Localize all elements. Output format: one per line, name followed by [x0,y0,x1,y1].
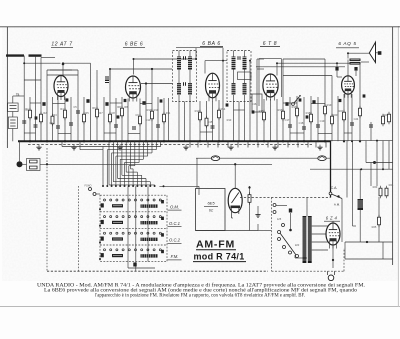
svg-text:F.M.: F.M. [171,254,179,259]
wire stage1 link [47,69,78,71]
junction on switch box edge [99,208,101,210]
capacitor C25 [369,125,373,127]
coil L16 in wafer F.M. [112,254,123,257]
capacitor padder in wafer O.C.1 [101,220,104,224]
junction on bus [218,140,220,142]
wire speaker magnet lead [376,52,378,54]
wire AVC line stage2 [110,68,172,70]
svg-text:220: 220 [295,243,300,247]
junction [151,68,153,70]
wire [145,84,147,98]
wire stage4 vertical [296,96,298,141]
svg-text:A.M.: A.M. [334,203,340,207]
resistor R5 [83,112,86,125]
switch terminal [154,185,156,187]
wire [109,69,111,80]
junction on bus [324,140,326,142]
svg-text:mod R 74/1: mod R 74/1 [193,252,244,262]
junction on bus [127,140,129,142]
capacitor C33 tuning [105,81,109,83]
wire component link [104,132,116,134]
wire transformer top lead [306,198,308,217]
wire stage4 vertical [324,96,326,141]
wire stage2 vertical [103,97,105,141]
FM dipole antenna left arm [6,54,24,56]
svg-text:R6: R6 [92,106,96,110]
wire stage1 vertical [90,63,92,141]
switch contacts O.M. [104,199,162,201]
junction node [249,60,251,62]
wire [184,102,186,142]
wire [198,186,200,195]
AM antenna coil L1 [8,103,19,112]
power transformer T5 [303,216,312,263]
wire component link [53,103,66,105]
tube V6 label fraction bar [204,205,218,207]
wire [40,58,42,97]
svg-text:R23: R23 [373,185,378,189]
wire [355,71,357,76]
tube V3 label underline [200,46,223,48]
wire right column vertical [376,141,378,186]
capacitor C8 [114,125,118,127]
wire in T1 [178,51,180,57]
junction node [133,58,135,60]
capacitor C10 [156,125,160,127]
tube V1 12AT7 [54,76,68,101]
paper noise overlay [2,26,398,281]
wire choke bottom [359,210,361,242]
svg-text:R4: R4 [60,107,64,111]
tube V2 6BE6 [126,76,141,102]
wire stage2 vertical [157,97,159,141]
wire right column vertical [382,141,384,170]
wire in T2 [233,70,235,84]
svg-text:C8: C8 [111,111,115,115]
wire [378,225,380,242]
coil L14 in wafer O.C.2 [112,237,123,240]
dial lamp LP1 filament [213,156,219,158]
IF T1 tertiary coil [177,83,181,95]
wire indicator feed [234,164,236,188]
wire [256,59,258,75]
capacitor padder in wafer O.M. [101,203,104,207]
svg-text:6 Z 4: 6 Z 4 [326,216,338,221]
wire component link [30,102,41,104]
model label AM-FM underline [196,249,236,251]
wire to indicator row [196,158,198,188]
wire band switch cascade horizontal [125,162,140,164]
wire long AF coupling [256,66,345,68]
wire [257,224,259,231]
junction node [360,168,362,170]
wire band switch cascade horizontal [118,178,146,180]
tube V3 6BA6 [206,73,220,101]
wire ground tick [237,141,239,147]
wire transformer bottom lead [295,257,307,259]
wire ground tick [217,141,219,147]
capacitor C4 [69,123,73,125]
resistor R30 [388,112,391,125]
svg-text:R10: R10 [154,108,159,112]
wire ground tick [287,141,289,147]
svg-text:R15: R15 [259,109,264,113]
svg-text:R20: R20 [333,113,338,117]
wire stage2 vertical [151,69,153,141]
resistor R7 [109,112,112,125]
junction node [336,62,338,64]
tube V6 tuning indicator 6E5 [228,188,242,218]
wire band switch cascade drop to terminal [119,159,121,185]
svg-text:R14: R14 [221,107,226,111]
schematic frame left border [6,27,8,148]
ground [71,145,76,150]
wire component link [110,102,122,104]
wire band switch cascade horizontal [112,152,152,154]
wire [276,63,278,75]
resistor R3 [51,114,54,127]
junction on bus [163,140,165,142]
coil L2 winding bar [10,122,15,124]
tube V7 rectifier 6Z4 [326,223,340,249]
capacitor C9 [132,127,136,129]
capacitor C21 blocking [312,100,315,104]
wire stage4 vertical [289,97,291,141]
wire phono to switch box [96,193,100,195]
capacitor C24 [350,123,354,125]
capacitor C32 tuning [105,77,109,79]
wire above T1 [176,47,223,49]
capacitor C23 coupling [354,67,357,71]
junction on bus [303,140,305,142]
wire band switch cascade riser [147,141,149,156]
wire to PS box [258,230,272,232]
resistor R17 [296,106,299,119]
wire [257,68,264,70]
resistor R6 [96,107,99,120]
wire AF line to PS box [40,163,272,165]
wire in T1 [189,70,191,84]
junction node [382,168,384,170]
tube V4 label underline [260,46,280,48]
resistor R11 [163,112,166,125]
band switch wafer separator [100,227,167,229]
wire [353,225,357,227]
wire band switch cascade riser [130,141,132,169]
wire stage1 vertical [29,97,31,141]
wire rectifier cathode down [332,245,334,268]
wire stage4 vertical [303,97,305,141]
wire stage5 vertical [347,94,349,141]
tube V5 label underline [336,47,359,49]
wire in T1 [178,70,180,84]
wire band switch cascade drop to terminal [115,156,117,185]
ground [183,145,188,150]
wire V4 shield right [281,59,283,97]
capacitor C22 coupling [335,67,338,71]
wire ground tick [227,141,229,147]
switch terminal [106,185,108,187]
wire to speaker [348,52,369,54]
wire component link [200,131,213,133]
wire V3 grid link [205,60,227,62]
wire heater line right [310,168,393,170]
wire band switch cascade riser [121,141,123,175]
junction node [206,140,208,142]
power supply box top dashed edge [240,197,331,199]
wire stage4 vertical [270,99,272,141]
wire ground tick [207,141,209,147]
capacitor C17 [288,125,292,127]
svg-text:6 AQ 5: 6 AQ 5 [338,41,356,47]
svg-text:R25: R25 [372,225,377,229]
junction on bus [46,140,48,142]
wire stage2 vertical [145,97,147,141]
phono input terminal 1 [89,188,92,191]
wire component link [290,132,304,134]
terminal dot extra [163,185,165,187]
wire V2 anode to IF1 [141,83,173,85]
wire band switch cascade riser [142,141,144,159]
band switch wafer separator [100,211,167,213]
wire stage1 vertical [23,109,25,141]
resistor R20 [331,114,334,127]
shield dashed boundary left [46,148,48,271]
wire band switch cascade horizontal [126,171,137,173]
junction [366,241,368,243]
wafer label O.C.1 underline [168,226,182,228]
wire antenna to V1 grid [24,62,60,64]
AM antenna coil L2 [8,117,17,129]
svg-text:R8: R8 [124,105,128,109]
PS box edge contact 2 [273,211,276,214]
wire band switch cascade drop to terminal [154,184,156,186]
resistor R19 [324,104,327,117]
svg-text:R21: R21 [339,109,344,113]
wire band switch cascade horizontal [113,181,150,183]
junction on bus [359,140,361,142]
junction node [238,140,240,142]
wire [232,217,234,219]
coil L2 winding bar [10,119,15,121]
wafer label O.C.2 underline [168,242,182,244]
wire [378,197,380,217]
ground [317,145,322,150]
wire transformer secondary lead [312,233,328,235]
wire speaker return [361,61,369,63]
wire stage4 vertical [331,97,333,141]
capacitor blocking small [117,115,120,118]
wire band switch cascade riser [125,141,127,172]
resistor R9 [139,114,142,127]
svg-text:C1: C1 [25,108,29,112]
wire band switch cascade drop to terminal [128,166,130,186]
svg-text:l'apparecchio è in posizione F: l'apparecchio è in posizione FM. Rivelat… [95,294,305,299]
wire component link [58,133,71,135]
capacitor C2 [34,125,38,127]
wire [347,53,349,58]
capacitor in wafer O.C.1 right [161,217,164,220]
wire stage1 vertical [83,97,85,141]
volume potentiometer knob [17,161,23,167]
switch terminal [128,185,130,187]
resistor R15 [263,110,266,123]
capacitor blocking small [363,94,366,97]
wire antenna right downlead [35,56,37,96]
wire transformer secondary lead [312,225,328,227]
junction on bus [199,140,201,142]
wire transformer secondary lead [312,241,328,243]
resistor R4 [64,108,67,121]
wire stage1 vertical [70,97,72,141]
wire band switch cascade drop to terminal [136,172,138,185]
mains plug [328,271,335,280]
wire mains line [345,258,393,260]
wire band switch cascade drop to terminal [145,179,147,186]
wire in T2 [233,51,235,57]
capacitor blocking small [160,99,163,102]
wire in T2 [244,70,246,84]
switch shaft wire right [135,186,137,271]
dial lamp LP2 filament [319,156,325,158]
resistor R24 [385,186,388,199]
power supply box left edge [271,198,273,272]
resistor R21 [343,110,346,123]
capacitor blocking small [299,98,302,101]
svg-text:12 AT 7: 12 AT 7 [51,42,72,48]
switch terminal [149,185,151,187]
capacitor C16 trimmer [238,56,240,60]
capacitor C19 [316,125,320,127]
wire right column vertical [388,141,390,170]
wire rectifier anode up [332,222,334,224]
wire [344,242,346,259]
svg-text:R18: R18 [306,111,311,115]
wire band switch cascade riser [160,141,162,146]
capacitor padder in wafer F.M. [101,253,104,257]
svg-text:C18: C18 [299,121,304,125]
wire band switch cascade drop to terminal [106,150,108,186]
wire [382,242,384,259]
svg-text:6C: 6C [209,209,214,213]
wire band switch cascade drop to terminal [124,163,126,186]
wire band switch cascade riser [155,141,157,149]
page scan right edge [397,26,399,307]
junction node [23,62,25,64]
capacitor blocking small [306,115,309,118]
coil L13 in wafer O.C.1 [141,221,158,224]
resistor R29 [382,114,385,127]
svg-text:R12: R12 [195,109,200,113]
ground near indicator [255,212,260,217]
wire band switch cascade riser [151,141,153,153]
wire ground tick [307,141,309,147]
wire right column drop A [346,141,348,198]
svg-text:R5: R5 [85,111,89,115]
IF T1 secondary coil [188,57,192,70]
tube V4 6T8 [263,74,278,101]
resistor R22 [359,106,362,119]
capacitor blocking small [35,116,38,119]
wire [12,129,14,142]
wire stage1 upper link 2 [24,79,41,81]
shield dashed boundary mid [78,186,80,271]
wire T1 to bus [189,95,191,141]
svg-text:R17: R17 [292,105,297,109]
wire band switch cascade drop to terminal [111,153,113,185]
wire band switch cascade horizontal [103,146,161,148]
svg-text:C5: C5 [73,105,77,109]
capacitor blocking small [226,103,229,106]
resistor R18 [310,112,313,125]
wire band switch cascade riser [117,141,119,178]
svg-text:R11: R11 [166,111,171,115]
svg-text:R8: R8 [117,105,121,109]
switch contacts O.C.1 [104,216,162,218]
wire stage4 upper link [283,58,325,60]
wire [282,76,284,98]
wire stage1 vertical [57,97,59,142]
wire band switch cascade horizontal [122,174,142,176]
wire [249,186,251,195]
junction node [145,140,147,142]
svg-text:C16: C16 [252,102,257,106]
junction node [276,62,278,64]
svg-text:R10: R10 [147,108,152,112]
capacitor C6 blocking [42,102,45,106]
wire band switch cascade horizontal [109,184,155,186]
loudspeaker magnet [378,51,382,55]
coil L10 in wafer O.M. [112,204,123,207]
wire [13,95,24,97]
svg-text:7a: 7a [16,93,20,97]
wire ground tick [197,141,199,147]
potentiometer network box [27,159,41,171]
coil L1 winding bar [10,105,17,107]
svg-text:R24: R24 [389,183,394,187]
IF transformer T1 shield box [173,51,197,102]
switch shaft wire left [127,186,129,268]
wire band switch cascade riser [138,141,140,162]
wire [337,76,342,78]
capacitor in wafer O.M. right [161,200,164,203]
wire below wafers [128,267,155,269]
wire stage3 vertical [222,100,224,141]
wire band switch cascade drop to terminal [149,182,151,186]
wire HT return [345,241,393,243]
wire stage5 vertical [359,65,361,142]
schematic frame bottom dashed border [47,270,268,272]
junction [145,82,147,84]
junction node [282,140,284,142]
model label mod underline [193,261,246,263]
main HT bus [18,140,331,142]
svg-text:6E5: 6E5 [207,201,215,206]
node at V1 anode [62,63,65,66]
ratio detector coil [232,83,236,95]
wire cascade tail 2 [80,149,103,151]
wire [222,48,224,100]
wire band switch cascade horizontal [116,155,148,157]
wire [12,96,14,103]
svg-text:O.C.2: O.C.2 [169,238,181,243]
wire stage2 vertical [168,98,170,141]
wire band switch cascade riser [112,141,114,181]
ratio detector coil 2 [243,83,247,95]
wire ground tick [257,141,259,147]
wire stage1 vertical [77,70,79,141]
junction node [109,68,111,70]
